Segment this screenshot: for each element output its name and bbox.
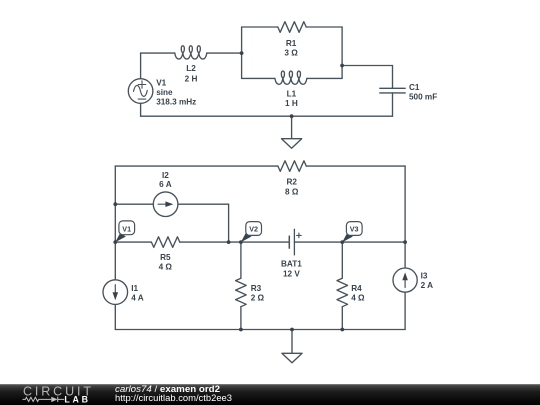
svg-text:4 Ω: 4 Ω: [351, 294, 365, 303]
svg-text:R3: R3: [251, 284, 262, 293]
svg-text:BAT1: BAT1: [281, 260, 302, 269]
current source I1: [103, 280, 128, 305]
wire top circuit bottom rail: [141, 115, 393, 117]
svg-text:V1: V1: [156, 79, 166, 88]
svg-text:L2: L2: [186, 64, 196, 73]
wire mid rail R5 to BAT1: [180, 241, 289, 243]
wire left edge to I1: [114, 242, 116, 279]
svg-text:2 H: 2 H: [185, 74, 198, 83]
inductor L1: [275, 71, 307, 84]
node H junction: [340, 240, 344, 244]
node C junction: [290, 114, 294, 118]
wire I3 to bottom rail: [404, 293, 406, 330]
battery BAT1: [289, 229, 301, 255]
wire I2 right lead: [178, 203, 228, 205]
wire box top right: [306, 26, 342, 28]
wire R4 bottom lead: [341, 307, 343, 330]
resistor R3: [236, 278, 247, 306]
wire box top left: [242, 26, 278, 28]
node E junction: [113, 240, 117, 244]
svg-text:C1: C1: [409, 83, 420, 92]
wire C1 top lead: [392, 66, 394, 89]
wire V1 top stub: [140, 53, 142, 78]
wire box right vertical: [341, 27, 343, 78]
wire mid rail V1 to R5: [115, 241, 151, 243]
wire box left vertical: [241, 27, 243, 78]
wire right edge to I3: [404, 242, 406, 268]
svg-text:LAB: LAB: [64, 395, 88, 405]
svg-text:12 V: 12 V: [283, 269, 300, 278]
wire I1 to bottom rail: [114, 305, 116, 330]
wire box bottom right: [307, 77, 342, 79]
wire bottom circuit top rail left: [115, 165, 278, 167]
node G junction: [239, 240, 243, 244]
footer bar: [0, 384, 540, 405]
resistor R2: [278, 161, 306, 172]
svg-text:sine: sine: [156, 88, 173, 97]
ground bottom: [282, 330, 302, 363]
probe V1: [115, 221, 134, 242]
svg-text:R4: R4: [351, 284, 362, 293]
inductor L2: [175, 46, 207, 59]
svg-text:8 Ω: 8 Ω: [285, 187, 299, 196]
svg-text:2 Ω: 2 Ω: [251, 294, 265, 303]
wire V1 bottom stub: [140, 104, 142, 117]
svg-text:R2: R2: [286, 177, 297, 186]
svg-text:1 H: 1 H: [285, 99, 298, 108]
wire bottom circuit top rail right: [306, 165, 405, 167]
svg-text:V3: V3: [350, 225, 359, 234]
wire L2 to node A: [207, 52, 242, 54]
capacitor C1: [380, 88, 405, 93]
current source I2: [153, 192, 178, 217]
wire mid rail BAT1 to right edge: [294, 241, 405, 243]
wire right edge upper: [404, 166, 406, 242]
node I junction: [403, 240, 407, 244]
svg-text:2 A: 2 A: [421, 281, 434, 290]
wire left edge mid: [114, 204, 116, 242]
wire V1 top to L2: [141, 52, 175, 54]
svg-text:R1: R1: [286, 39, 297, 48]
wire I2 down to node F: [228, 204, 230, 242]
wire bottom rail: [115, 329, 405, 331]
probe V2: [241, 222, 262, 243]
node D junction: [113, 202, 117, 206]
svg-text:6 A: 6 A: [159, 180, 172, 189]
svg-text:I3: I3: [421, 272, 428, 281]
node J junction: [239, 328, 243, 332]
wire box bottom left: [242, 77, 275, 79]
ground top: [282, 116, 302, 148]
voltage source V1: [128, 79, 153, 104]
footer logo resistor and diode: [23, 397, 65, 402]
svg-text:I2: I2: [162, 171, 169, 180]
resistor R4: [337, 278, 348, 306]
svg-text:500 mF: 500 mF: [409, 93, 437, 102]
current source I3: [393, 268, 417, 292]
svg-text:R5: R5: [160, 253, 171, 262]
svg-text:3 Ω: 3 Ω: [284, 49, 298, 58]
svg-text:http://circuitlab.com/ctb2ee3: http://circuitlab.com/ctb2ee3: [115, 393, 232, 403]
node K junction: [340, 328, 344, 332]
node L junction: [290, 328, 294, 332]
svg-text:V2: V2: [249, 225, 258, 234]
wire left edge upper: [114, 166, 116, 204]
wire I2 left lead: [115, 203, 153, 205]
resistor R5: [151, 237, 179, 248]
wire node B to C1: [342, 65, 392, 67]
wire R3 bottom lead: [240, 307, 242, 330]
svg-text:L1: L1: [287, 90, 297, 99]
node F junction: [227, 240, 231, 244]
svg-text:V1: V1: [122, 224, 131, 233]
svg-text:4 A: 4 A: [131, 293, 144, 302]
node A junction: [240, 51, 244, 55]
wire R3 top lead: [240, 242, 242, 278]
wire C1 bottom lead: [392, 93, 394, 116]
svg-text:4 Ω: 4 Ω: [159, 263, 173, 272]
probe V3: [342, 222, 362, 243]
node B junction: [340, 64, 344, 68]
resistor R1: [278, 22, 306, 33]
wire R4 top lead: [341, 242, 343, 278]
svg-text:I1: I1: [131, 284, 138, 293]
svg-text:318.3 mHz: 318.3 mHz: [156, 97, 196, 106]
